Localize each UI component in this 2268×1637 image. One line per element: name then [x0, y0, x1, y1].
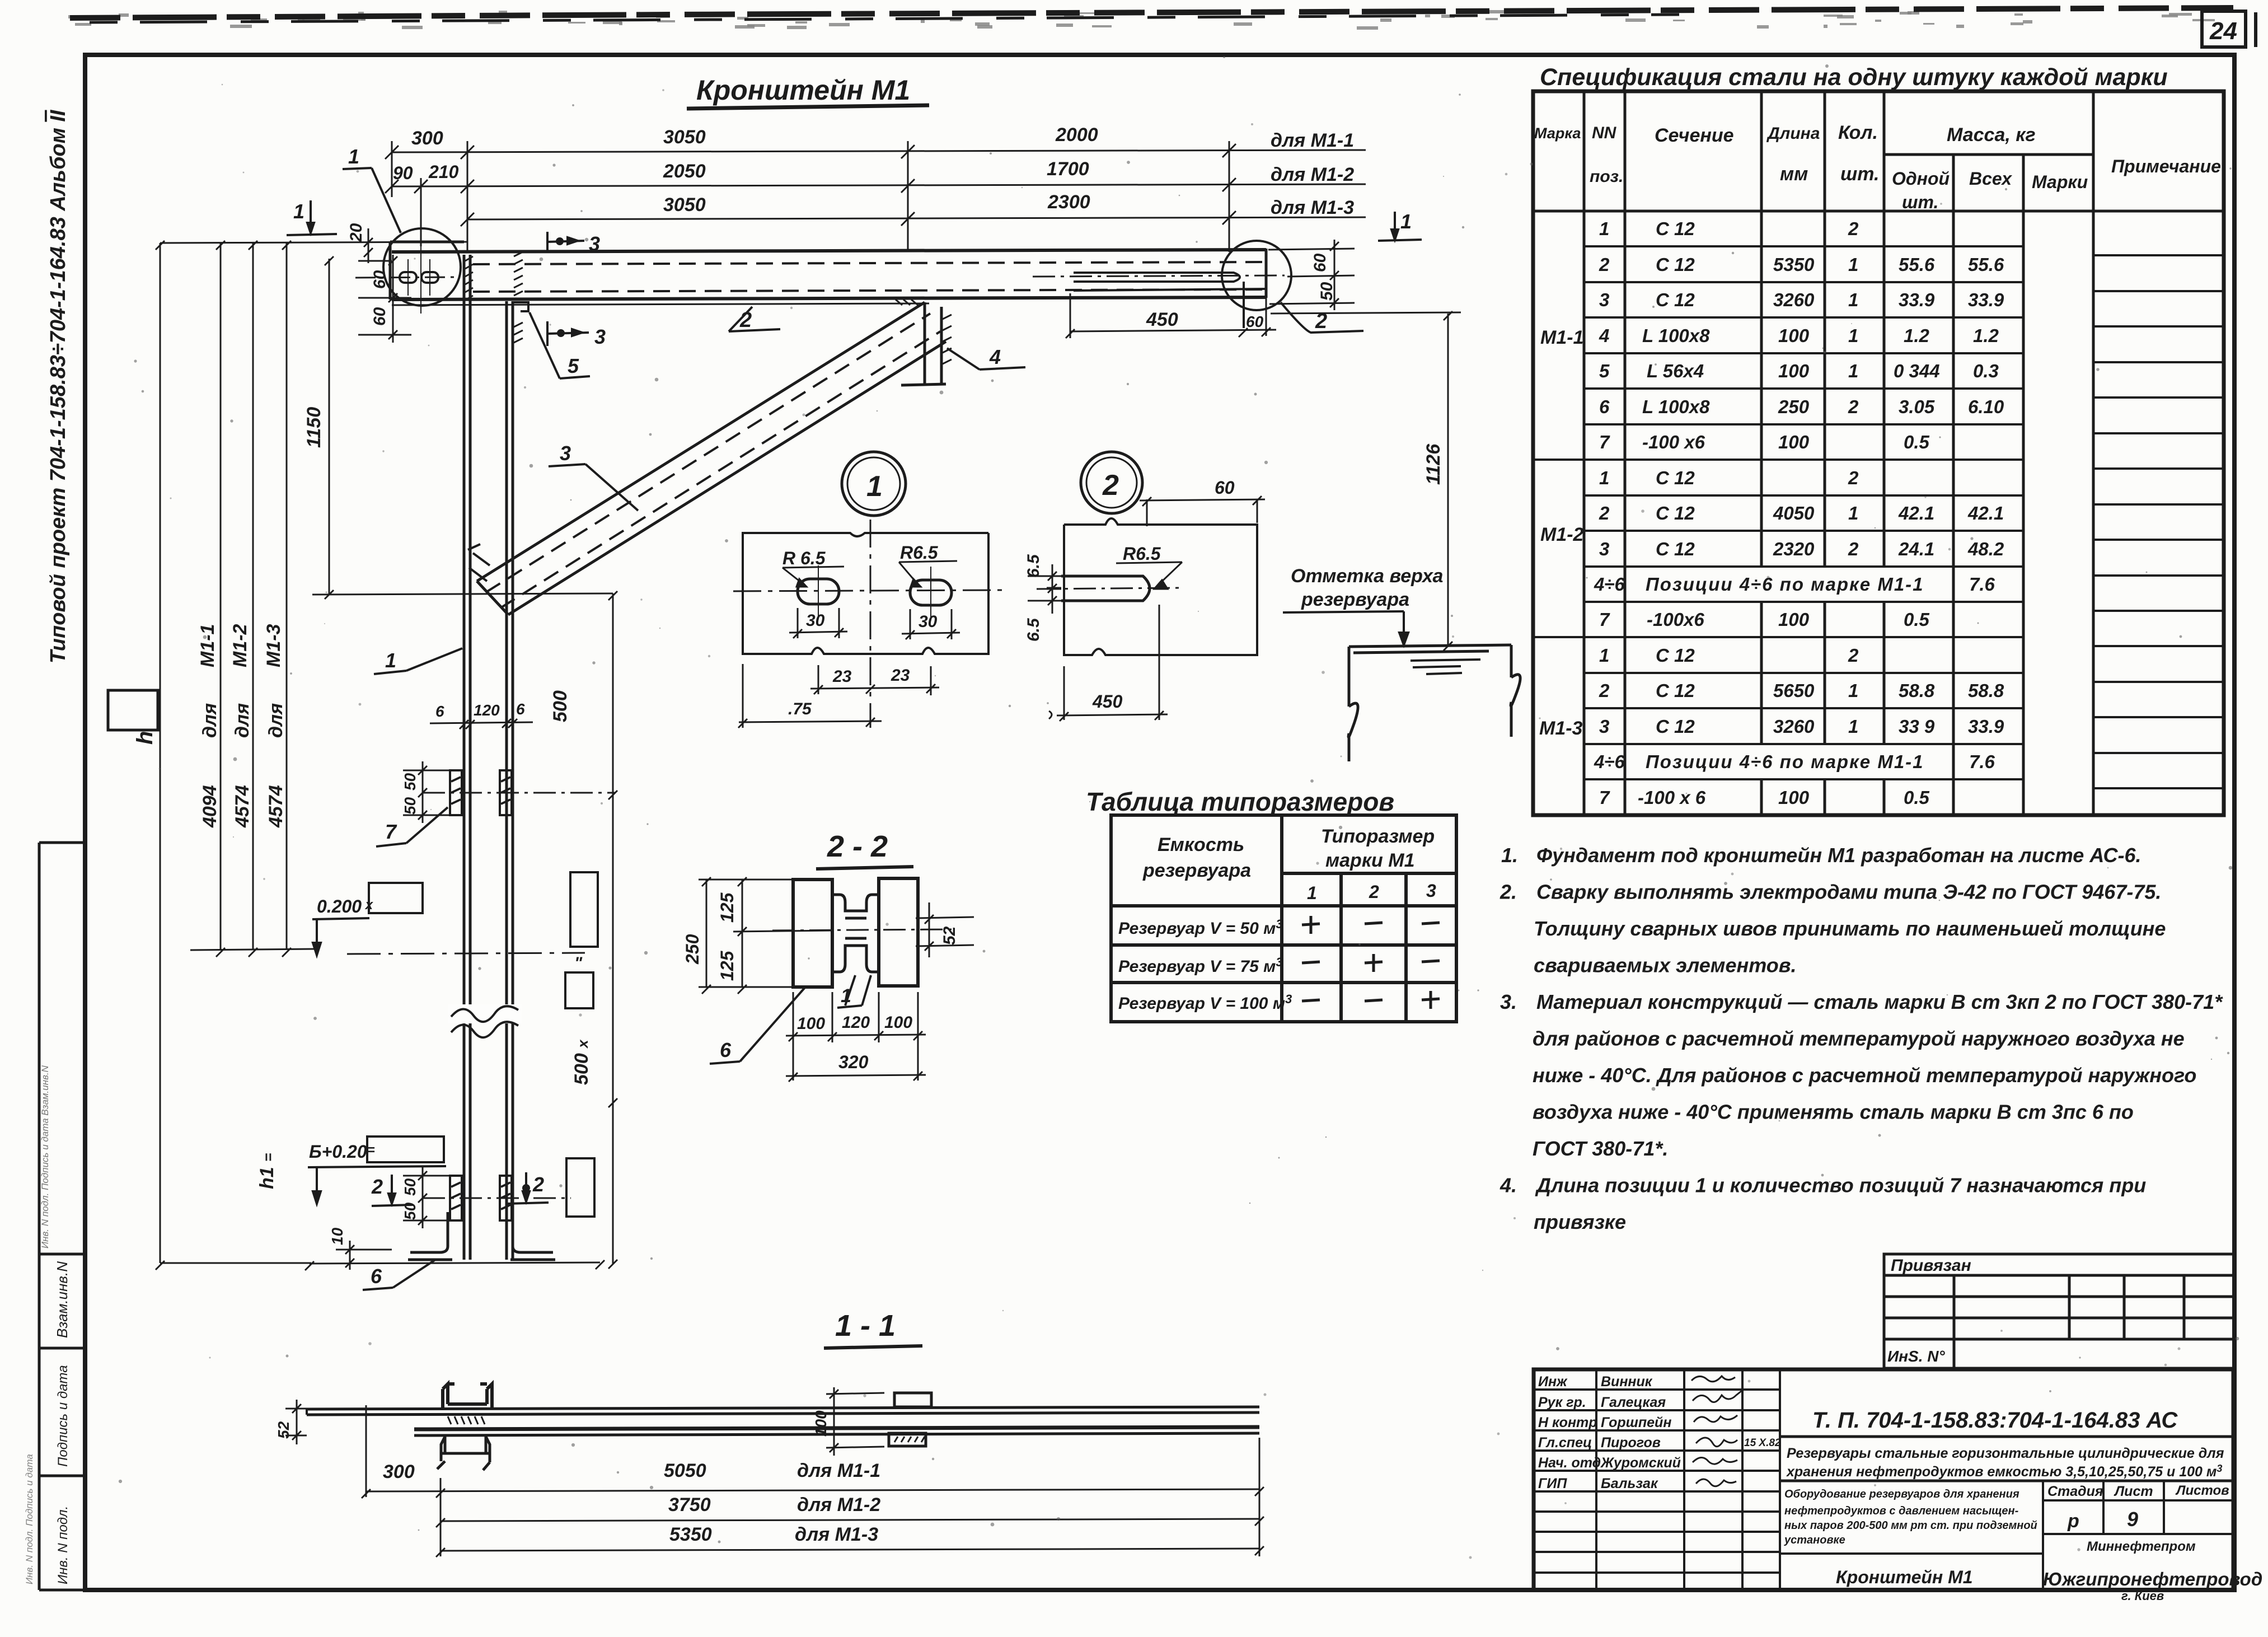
- detail circle mark 1 on beam end: [383, 228, 461, 306]
- svg-text:23: 23: [891, 666, 910, 685]
- left overall dimension lines h / 4094 / 4574 / 4574: [156, 241, 467, 1270]
- svg-text:23: 23: [832, 667, 852, 686]
- svg-text:4574: 4574: [232, 785, 253, 828]
- size table header: [1142, 826, 1436, 903]
- svg-text:Горшпейн: Горшпейн: [1601, 1415, 1671, 1430]
- size table plus/minus marks: [1302, 916, 1440, 1009]
- svg-text:С 12: С 12: [1656, 218, 1695, 239]
- specification table row lines: [1533, 246, 2224, 788]
- svg-text:для М1-2: для М1-2: [1271, 164, 1354, 185]
- dims 50/50 group 2: [403, 1167, 450, 1228]
- svg-text:3: 3: [589, 232, 600, 255]
- svg-text:2000: 2000: [1055, 124, 1098, 146]
- svg-text:R6.5: R6.5: [900, 542, 939, 563]
- svg-text:1: 1: [1848, 680, 1858, 701]
- label 4 with leader: [947, 348, 1025, 370]
- detail 1 bubble: [842, 452, 906, 516]
- dim 60 (detail 2 top): [1140, 496, 1265, 526]
- svg-text:4050: 4050: [1773, 503, 1815, 523]
- svg-text:шт.: шт.: [1840, 163, 1879, 185]
- tank outline: [1348, 645, 1520, 761]
- svg-text:Инв. N подл.: Инв. N подл.: [55, 1506, 71, 1584]
- dim 1126 (beam to tank top): [1271, 311, 1461, 651]
- svg-text:Оборудование резервуаров для х: Оборудование резервуаров для хранения: [1784, 1488, 2019, 1500]
- svg-text:г. Киев: г. Киев: [2121, 1589, 2164, 1603]
- base angles pos.6: [408, 1212, 555, 1260]
- leader and label 1 (end plate detail): [343, 168, 401, 233]
- svg-text:-100 х 6: -100 х 6: [1638, 787, 1706, 808]
- section 2-2 centreline: [772, 929, 952, 930]
- svg-text:Сечение: Сечение: [1655, 125, 1734, 146]
- svg-text:Таблица типоразмеров: Таблица типоразмеров: [1086, 787, 1394, 816]
- dim 450 (detail 2 bottom): [1049, 605, 1168, 721]
- svg-text:100: 100: [1778, 432, 1810, 452]
- svg-text:6.5: 6.5: [1024, 618, 1043, 642]
- dim 52 (2-2 right): [916, 902, 974, 957]
- svg-text:1 - 1: 1 - 1: [835, 1309, 896, 1343]
- tank top level note: [1291, 565, 1443, 610]
- svg-text:7: 7: [1599, 787, 1610, 808]
- svg-text:Сварку выполнять электродами: Сварку выполнять электродами типа Э-42 п…: [1536, 881, 2161, 904]
- svg-text:Одной: Одной: [1892, 169, 1950, 189]
- svg-text:Винник: Винник: [1601, 1374, 1653, 1390]
- svg-text:42.1: 42.1: [1898, 503, 1934, 523]
- size table grid: [1111, 815, 1456, 1022]
- leader and label 5: [529, 312, 590, 378]
- svg-text:120: 120: [842, 1013, 870, 1032]
- svg-text:ниже - 40°С. Для районов с: ниже - 40°С. Для районов с расчетной тем…: [1533, 1064, 2196, 1087]
- svg-text:58.8: 58.8: [1899, 680, 1935, 701]
- svg-text:210: 210: [428, 162, 459, 182]
- svg-text:450: 450: [1092, 691, 1123, 712]
- svg-text:2300: 2300: [1047, 191, 1090, 213]
- spare stamp box on margin: [108, 690, 158, 730]
- brace bottom weld marks: [468, 544, 490, 581]
- section marker 1 (top left): [287, 200, 337, 235]
- base dimension line: [305, 1260, 605, 1270]
- svg-text:Длина позиции 1 и количеств: Длина позиции 1 и количество позиций 7 н…: [1535, 1174, 2146, 1197]
- svg-text:3.: 3.: [1500, 990, 1517, 1013]
- section marker 2 (left): [372, 1175, 413, 1206]
- svg-text:ГИП: ГИП: [1538, 1476, 1567, 1491]
- svg-text:0.5: 0.5: [1904, 787, 1930, 808]
- svg-text:Галецкая: Галецкая: [1601, 1395, 1666, 1410]
- brace hidden edges (dashed): [486, 314, 930, 592]
- dim 1150 (column top to brace): [312, 256, 613, 599]
- detail circle mark 2 on beam end: [1222, 241, 1291, 310]
- bolt centreline at beam left end: [355, 277, 456, 278]
- svg-text:3: 3: [594, 325, 606, 348]
- svg-text:1: 1: [1848, 503, 1858, 523]
- left margin stamp cell labels: [24, 1065, 71, 1584]
- sheet number box 24: [2202, 11, 2256, 47]
- svg-text:С 12: С 12: [1656, 680, 1695, 701]
- svg-text:марки М1: марки М1: [1325, 850, 1415, 871]
- svg-text:р: р: [2067, 1510, 2079, 1532]
- beam channel C12 pos.2 top flange: [392, 250, 1266, 252]
- svg-text:С 12: С 12: [1656, 503, 1695, 523]
- svg-text:55.6: 55.6: [1899, 254, 1935, 275]
- svg-text:шт.: шт.: [1902, 192, 1938, 212]
- svg-text:1: 1: [293, 200, 304, 223]
- svg-text:R 6.5: R 6.5: [782, 548, 826, 568]
- svg-text:1: 1: [1848, 361, 1858, 381]
- svg-text:1: 1: [1599, 218, 1609, 239]
- svg-text:100: 100: [1778, 787, 1810, 808]
- svg-text:Резервуары стальные горизонт: Резервуары стальные горизонтальные цилин…: [1787, 1446, 2224, 1461]
- svg-text:6: 6: [720, 1039, 732, 1061]
- label 2 for beam: [729, 307, 780, 331]
- svg-text:1150: 1150: [303, 407, 325, 448]
- svg-text:2: 2: [1369, 882, 1379, 902]
- centreline bolt group 1: [423, 792, 616, 794]
- svg-text:2: 2: [1599, 680, 1610, 701]
- svg-text:1.2: 1.2: [1904, 325, 1930, 346]
- svg-text:4.: 4.: [1499, 1174, 1517, 1197]
- rotated labels for overall dims: [133, 624, 287, 1189]
- torn paper top edge: [70, 8, 2233, 22]
- svg-text:5050: 5050: [664, 1460, 706, 1481]
- title block signatures (squiggles): [1691, 1376, 1742, 1486]
- brace top end cut and gusset pos.4: [901, 302, 946, 385]
- svg-text:Т. П. 704-1-158.83:704-1-164.: Т. П. 704-1-158.83:704-1-164.83 АС: [1812, 1408, 2178, 1433]
- svg-text:установке: установке: [1784, 1534, 1845, 1546]
- svg-text:Инв. N подл. Подпись и дата: Инв. N подл. Подпись и дата: [24, 1454, 35, 1584]
- svg-text:Спецификация стали на одну: Спецификация стали на одну штуку каждой …: [1540, 64, 2168, 91]
- dim 75: [738, 664, 882, 728]
- dim 250 (2-2): [699, 877, 795, 994]
- specification table column lines: [1533, 91, 2224, 815]
- beam right end line: [1265, 249, 1268, 298]
- svg-text:2: 2: [1848, 218, 1859, 239]
- svg-text:120: 120: [474, 701, 500, 719]
- detail 1 slot right: [910, 580, 952, 605]
- svg-text:6.10: 6.10: [1968, 396, 2004, 417]
- svg-text:5350: 5350: [669, 1524, 712, 1545]
- end plate pos.4 at beam left end: [390, 242, 464, 300]
- dim 320 (2-2): [786, 1072, 926, 1082]
- section 2-2 web: [832, 895, 879, 972]
- svg-text:55.6: 55.6: [1968, 254, 2004, 275]
- dim 6|120|6 across column: [430, 719, 533, 729]
- svg-text:2: 2: [532, 1173, 544, 1196]
- svg-text:R6.5: R6.5: [1123, 544, 1161, 564]
- svg-text:100: 100: [797, 1014, 825, 1033]
- diagonal brace channel pos.3: [477, 302, 946, 615]
- svg-text:6: 6: [371, 1265, 382, 1288]
- section 1-1 dim 100 (right): [826, 1387, 884, 1456]
- specification mark labels: [1539, 327, 1584, 739]
- svg-text:М1-2: М1-2: [229, 624, 251, 667]
- svg-text:2: 2: [1599, 254, 1610, 275]
- dims 6.5/6.5 (detail 2): [1028, 564, 1064, 614]
- svg-text:300: 300: [411, 128, 443, 149]
- svg-text:60: 60: [1311, 253, 1329, 272]
- svg-text:1.2: 1.2: [1973, 325, 1999, 346]
- svg-text:Материал конструкций — сталь: Материал конструкций — сталь марки В ст …: [1536, 990, 2223, 1013]
- svg-text:Кол.: Кол.: [1838, 122, 1878, 143]
- section 1-1 dimension row M1-3: [436, 1546, 1264, 1557]
- svg-text:1: 1: [841, 985, 851, 1007]
- svg-text:привязке: привязке: [1534, 1210, 1626, 1233]
- svg-text:0 344: 0 344: [1894, 361, 1940, 381]
- svg-text:Емкость: Емкость: [1158, 834, 1244, 855]
- dim 450/60 under beam end: [1066, 293, 1276, 338]
- svg-text:3260: 3260: [1773, 716, 1815, 737]
- section marker 2 (right): [507, 1172, 549, 1204]
- svg-text:Примечание: Примечание: [2111, 156, 2221, 176]
- section 1-1 beam flange lines: [307, 1407, 1259, 1435]
- svg-text:С 12: С 12: [1656, 539, 1695, 559]
- svg-text:0.5: 0.5: [1904, 432, 1930, 452]
- svg-text:Кронштейн М1: Кронштейн М1: [1836, 1567, 1973, 1587]
- svg-text:Рук гр.: Рук гр.: [1538, 1395, 1586, 1410]
- svg-text:2: 2: [1848, 396, 1859, 417]
- svg-text:Масса, кг: Масса, кг: [1947, 124, 2036, 146]
- svg-text:ГОСТ 380-71*.: ГОСТ 380-71*.: [1533, 1137, 1668, 1160]
- svg-text:125: 125: [717, 950, 737, 981]
- specification table outer frame: [1533, 91, 2224, 815]
- svg-text:свариваемых элементов.: свариваемых элементов.: [1534, 954, 1796, 977]
- svg-text:ных паров 200-500 мм рт ст. пр: ных паров 200-500 мм рт ст. при подземно…: [1784, 1519, 2037, 1532]
- svg-text:мм: мм: [1780, 163, 1808, 185]
- notes text: [1499, 844, 2223, 1233]
- svg-text:2: 2: [1848, 467, 1859, 488]
- label 1 (2-2 web): [837, 975, 871, 1008]
- bolt plates pos.7 group 2: [450, 1176, 512, 1220]
- svg-text:поз.: поз.: [1590, 167, 1623, 186]
- svg-text:М1-3: М1-3: [263, 624, 284, 667]
- side rest plates (right of column): [570, 872, 598, 947]
- svg-text:90: 90: [393, 163, 413, 183]
- svg-text:для: для: [265, 703, 287, 738]
- svg-text:500: 500: [550, 690, 571, 722]
- svg-text:Позиции 4÷6 по марке М1-1: Позиции 4÷6 по марке М1-1: [1646, 574, 1924, 595]
- svg-text:1: 1: [1848, 254, 1858, 275]
- centreline bolt group 2: [423, 1198, 571, 1199]
- svg-text:33.9: 33.9: [1968, 289, 2004, 310]
- svg-text:Инж: Инж: [1538, 1374, 1568, 1390]
- detail 2 bubble: [1081, 452, 1142, 513]
- section marker 3 (upper): [547, 232, 584, 252]
- svg-text:1: 1: [1848, 289, 1858, 310]
- svg-text:Миннефтепром: Миннефтепром: [2087, 1539, 2196, 1554]
- svg-text:48.2: 48.2: [1967, 539, 2004, 559]
- svg-text:NN: NN: [1592, 124, 1617, 142]
- svg-text:300: 300: [383, 1461, 415, 1482]
- detail 1 plate outline: [743, 533, 988, 654]
- svg-text:3: 3: [1599, 716, 1609, 737]
- svg-text:4: 4: [989, 345, 1001, 368]
- svg-text:7.6: 7.6: [1969, 751, 1995, 772]
- svg-text:Бальзак: Бальзак: [1601, 1476, 1658, 1491]
- section 1-1 dimension row M1-2: [436, 1517, 1264, 1527]
- svg-text:С 12: С 12: [1656, 645, 1695, 666]
- title block signature texts: [1538, 1374, 1781, 1491]
- svg-text:2: 2: [1848, 645, 1859, 666]
- svg-text:7: 7: [1599, 432, 1610, 452]
- attachment (Privyazan) box: [1884, 1254, 2234, 1368]
- svg-text:L 100х8: L 100х8: [1642, 396, 1710, 417]
- svg-text:для М1-1: для М1-1: [797, 1460, 880, 1481]
- svg-text:": ": [574, 954, 583, 972]
- svg-text:1: 1: [1307, 883, 1317, 903]
- section 1-1 column channel below (hidden): [437, 1437, 490, 1470]
- svg-text:Марка: Марка: [1534, 125, 1581, 142]
- specification table header text: [1534, 122, 2221, 212]
- dim 10 at base: [336, 1241, 392, 1270]
- svg-text:Взам.инв.N: Взам.инв.N: [54, 1261, 71, 1338]
- svg-text:60: 60: [371, 270, 389, 289]
- beam right end slotted connection: [1074, 273, 1266, 328]
- svg-text:100: 100: [1778, 609, 1810, 630]
- dim 30 (right slot): [902, 609, 960, 639]
- svg-text:500 x: 500 x: [571, 1039, 592, 1085]
- section marker 3 (lower): [547, 321, 589, 346]
- svg-text:3.05: 3.05: [1899, 396, 1935, 417]
- svg-text:С 12: С 12: [1656, 289, 1695, 310]
- svg-text:6: 6: [1599, 396, 1610, 417]
- svg-text:52: 52: [275, 1421, 292, 1439]
- dimension extension lines from top rows: [392, 141, 1229, 253]
- svg-text:7: 7: [385, 820, 397, 843]
- svg-text:1: 1: [1400, 210, 1412, 233]
- dim 125/125 (2-2): [733, 877, 834, 994]
- section 1-1 dim 52 (left): [285, 1400, 307, 1444]
- svg-text:7.6: 7.6: [1969, 574, 1995, 595]
- svg-text:58.8: 58.8: [1968, 680, 2004, 701]
- svg-text:1: 1: [866, 470, 883, 503]
- svg-text:Резервуар V = 75 м3: Резервуар V = 75 м3: [1118, 955, 1283, 976]
- title block outer: [1534, 1369, 2233, 1590]
- svg-text:6: 6: [516, 700, 525, 718]
- svg-text:Н контр: Н контр: [1538, 1415, 1597, 1430]
- svg-text:0.5: 0.5: [1904, 609, 1930, 630]
- svg-text:2 - 2: 2 - 2: [827, 830, 888, 863]
- svg-text:1700: 1700: [1047, 158, 1089, 180]
- svg-text:450: 450: [1146, 309, 1178, 330]
- svg-text:320: 320: [838, 1052, 869, 1072]
- section 1-1 dimension row M1-1: [362, 1405, 1264, 1556]
- svg-text:2320: 2320: [1773, 539, 1815, 559]
- svg-text:2: 2: [371, 1175, 383, 1198]
- svg-text:для М1-1: для М1-1: [1271, 130, 1354, 151]
- svg-text:0.3: 0.3: [1973, 361, 1999, 381]
- svg-text:52: 52: [940, 926, 959, 945]
- svg-text:2.: 2.: [1499, 881, 1517, 904]
- detail 2 plate outline: [1064, 518, 1257, 655]
- svg-text:50: 50: [401, 773, 419, 791]
- weld hatch on column face: [465, 252, 523, 343]
- svg-text:2: 2: [1599, 503, 1610, 523]
- svg-text:100: 100: [1778, 361, 1810, 381]
- svg-text:4094: 4094: [199, 785, 221, 828]
- section 2-2 left channel flange: [793, 878, 918, 987]
- svg-text:4: 4: [1599, 325, 1609, 346]
- dims 60/50 right of beam end: [1268, 240, 1355, 310]
- svg-text:50: 50: [1318, 282, 1336, 301]
- dims 50/50 group 1: [403, 761, 450, 823]
- svg-text:250: 250: [682, 934, 702, 965]
- section 1-1 weld ticks under channel: [448, 1416, 485, 1424]
- svg-text:4574: 4574: [265, 785, 287, 828]
- dims 60/60 left of column: [358, 255, 411, 343]
- svg-text:для М1-3: для М1-3: [1271, 197, 1354, 218]
- svg-text:для: для: [199, 703, 221, 738]
- left margin lower stamp table: [39, 843, 85, 1590]
- bolt plates pos.7 group 1: [450, 770, 512, 815]
- dim 23|23: [810, 665, 939, 695]
- label 2 leader at beam end: [1281, 302, 1363, 333]
- centreline at level 0.200: [347, 953, 585, 954]
- svg-text:Нач. отд: Нач. отд: [1538, 1455, 1601, 1471]
- svg-text:Толщину сварных швов приним: Толщину сварных швов принимать по наимен…: [1534, 917, 2166, 940]
- title block signature grid: [1534, 1369, 1780, 1590]
- main view title underline: [687, 105, 929, 109]
- svg-text:33.9: 33.9: [1968, 716, 2004, 737]
- svg-text:3: 3: [560, 442, 571, 465]
- svg-text:42.1: 42.1: [1967, 503, 2004, 523]
- svg-text:7: 7: [1599, 609, 1610, 630]
- svg-text:Стадия: Стадия: [2047, 1484, 2103, 1499]
- svg-text:1: 1: [385, 649, 396, 672]
- svg-text:Марки: Марки: [2032, 172, 2088, 192]
- section 1-1 column channel on top: [443, 1384, 492, 1409]
- svg-text:3750: 3750: [668, 1494, 711, 1516]
- svg-text:6.5: 6.5: [1024, 554, 1043, 578]
- beam hidden flange edges (dashed): [473, 262, 1266, 264]
- svg-text:20: 20: [347, 223, 365, 242]
- svg-text:Гл.спец: Гл.спец: [1538, 1435, 1592, 1451]
- section marker 1 (top right, near beam end): [1378, 212, 1422, 241]
- label 6 (2-2) with leader: [710, 988, 805, 1064]
- svg-text:Б+0.20=: Б+0.20=: [309, 1142, 375, 1162]
- svg-text:Всех: Всех: [1969, 169, 2012, 189]
- svg-text:2050: 2050: [663, 161, 706, 182]
- detail 1 centreline: [870, 520, 871, 728]
- title block subject text: [1784, 1488, 2037, 1546]
- svg-text:Резервуар V = 50 м3: Резервуар V = 50 м3: [1118, 917, 1283, 938]
- svg-text:33.9: 33.9: [1899, 289, 1935, 310]
- svg-text:1: 1: [1599, 645, 1609, 666]
- detail 1 slot left: [798, 579, 839, 604]
- section 1-1 beam left end: [306, 1409, 308, 1415]
- svg-text:5650: 5650: [1773, 680, 1815, 701]
- svg-text:33 9: 33 9: [1899, 716, 1935, 737]
- svg-text:1: 1: [1848, 716, 1858, 737]
- svg-text:50: 50: [401, 1178, 419, 1196]
- svg-text:10: 10: [329, 1227, 346, 1245]
- top dimension row 1 (300 | 3050 | 2000): [385, 144, 1366, 159]
- svg-text:Привязан: Привязан: [1891, 1256, 1971, 1275]
- svg-text:9: 9: [2127, 1508, 2138, 1531]
- svg-text:L 100х8: L 100х8: [1642, 325, 1710, 346]
- svg-text:Кронштейн М1: Кронштейн М1: [696, 74, 910, 106]
- svg-text:3: 3: [1599, 539, 1609, 559]
- label 6 with leader: [363, 1260, 435, 1290]
- svg-text:h: h: [133, 731, 157, 745]
- svg-text:М1-3: М1-3: [1539, 718, 1583, 739]
- svg-text:2: 2: [1848, 539, 1859, 559]
- svg-text:100: 100: [884, 1013, 912, 1032]
- svg-text:Листов: Листов: [2175, 1483, 2229, 1498]
- svg-text:М1-2: М1-2: [1540, 524, 1584, 545]
- svg-text:2: 2: [1102, 469, 1119, 502]
- svg-text:3050: 3050: [663, 194, 706, 216]
- svg-text:резервуара: резервуара: [1142, 860, 1251, 881]
- title block project name: [1786, 1446, 2224, 1480]
- svg-text:Отметка верха: Отметка верха: [1291, 565, 1443, 587]
